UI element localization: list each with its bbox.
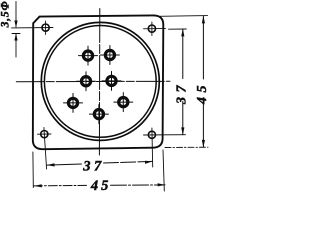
- svg-text:45: 45: [90, 178, 112, 194]
- svg-text:45: 45: [195, 81, 210, 105]
- svg-text:37: 37: [82, 159, 105, 175]
- svg-text:37: 37: [175, 81, 190, 105]
- svg-text:3,5Φ: 3,5Φ: [0, 1, 11, 29]
